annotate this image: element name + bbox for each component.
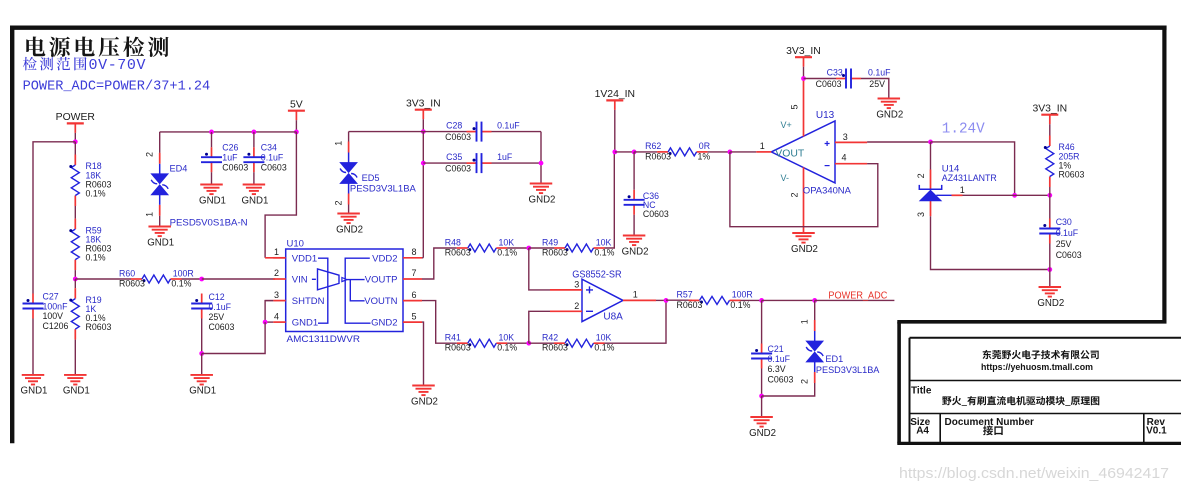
wire <box>74 133 76 142</box>
wire <box>730 151 756 153</box>
svg-text:GND2: GND2 <box>529 194 556 205</box>
wire <box>741 299 762 301</box>
junction <box>632 150 637 155</box>
svg-text:GND2: GND2 <box>371 318 397 329</box>
ground GND1 <box>21 375 48 397</box>
resistor R19 <box>69 288 111 340</box>
svg-text:VDD1: VDD1 <box>292 254 317 265</box>
wire VOUTN to R41 <box>422 301 457 344</box>
wire C36 drop <box>633 152 635 190</box>
svg-text:6.3V: 6.3V <box>768 364 786 374</box>
junction <box>664 298 669 303</box>
svg-text:ED4: ED4 <box>170 164 188 174</box>
resistor R49 <box>542 237 615 257</box>
wire <box>1049 195 1051 218</box>
capacitor C35 <box>445 152 513 173</box>
svg-text:0.1%: 0.1% <box>594 343 614 353</box>
wire <box>348 205 350 214</box>
wire 3V3 vertical to VDD2 <box>422 132 423 258</box>
svg-text:GND1: GND1 <box>63 386 90 397</box>
title block document CJK <box>983 425 1003 435</box>
svg-text:C0603: C0603 <box>209 322 235 332</box>
svg-text:R0603: R0603 <box>645 151 671 161</box>
svg-text:R60: R60 <box>119 268 135 278</box>
svg-text:R0603: R0603 <box>86 322 112 332</box>
svg-text:PESD3V3L1BA: PESD3V3L1BA <box>350 184 417 194</box>
heading subtitle CJK <box>23 57 87 71</box>
svg-text:R0603: R0603 <box>445 343 471 353</box>
wire <box>32 319 34 375</box>
svg-text:1: 1 <box>960 185 965 195</box>
wire <box>529 247 554 249</box>
ground GND2 <box>622 236 649 258</box>
svg-text:4: 4 <box>274 311 279 321</box>
wire <box>633 215 635 236</box>
svg-text:U10: U10 <box>287 238 304 249</box>
TVS diode ED5 <box>334 141 417 206</box>
wire <box>615 151 634 153</box>
wire VOUTP to R48 <box>422 248 457 279</box>
wire <box>1049 187 1051 195</box>
svg-text:C26: C26 <box>222 143 238 153</box>
svg-text:VOUTP: VOUTP <box>365 275 398 286</box>
shunt reference U14 AZ431LANTR <box>916 163 997 217</box>
resistor R60 <box>119 268 194 288</box>
wire U14 ref to node <box>963 194 1050 196</box>
svg-text:25V: 25V <box>1056 239 1072 249</box>
wire R48 junction to +input <box>529 248 550 290</box>
op-amp U10 AMC1311DWVR isolation amplifier <box>273 238 422 344</box>
wire <box>507 342 529 344</box>
ground GND1 <box>63 375 90 397</box>
junction <box>526 341 531 346</box>
wire <box>1049 244 1051 270</box>
wire <box>253 132 255 147</box>
svg-text:C21: C21 <box>768 344 784 354</box>
junction <box>73 277 78 282</box>
wire <box>202 278 275 280</box>
junction <box>1047 267 1052 272</box>
junction <box>1012 193 1017 198</box>
heading title CJK <box>26 36 168 57</box>
svg-text:VDD2: VDD2 <box>372 254 397 265</box>
wire GND1 net down to C12 <box>202 322 265 353</box>
svg-text:1: 1 <box>760 141 765 151</box>
svg-text:C34: C34 <box>261 143 277 153</box>
svg-text:100R: 100R <box>732 290 753 300</box>
svg-text:OPA340NA: OPA340NA <box>803 186 852 197</box>
power port 3V3_IN <box>786 46 821 67</box>
svg-text:C0603: C0603 <box>1056 250 1082 260</box>
wire C28 to corner <box>492 131 542 133</box>
svg-text:POWER: POWER <box>56 112 96 123</box>
resistor R42 <box>542 333 615 353</box>
svg-text:VOUT: VOUT <box>775 149 804 160</box>
junction <box>199 277 204 282</box>
resistor R62 <box>645 141 710 161</box>
wire C35 row <box>423 162 466 164</box>
svg-text:R0603: R0603 <box>542 343 568 353</box>
svg-text:Title: Title <box>911 385 932 396</box>
svg-text:R49: R49 <box>542 237 558 247</box>
svg-text:10K: 10K <box>499 237 515 247</box>
svg-text:0.1%: 0.1% <box>171 278 191 288</box>
wire +input to 1.24V node <box>867 141 930 143</box>
svg-text:GND2: GND2 <box>622 246 649 257</box>
svg-text:0.1%: 0.1% <box>594 247 614 257</box>
wire C28 row <box>423 131 466 133</box>
junction <box>263 320 268 325</box>
resistor R48 <box>445 237 518 257</box>
svg-text:GND2: GND2 <box>749 428 776 439</box>
svg-text:GND1: GND1 <box>199 195 226 206</box>
svg-text:5V: 5V <box>290 99 303 110</box>
svg-text:https://blog.csdn.net/weixin_4: https://blog.csdn.net/weixin_46942417 <box>899 466 1169 482</box>
svg-text:2: 2 <box>916 173 926 178</box>
TVS diode ED4 <box>145 152 248 228</box>
wire <box>74 340 76 375</box>
wire <box>614 110 616 152</box>
wire <box>74 206 76 219</box>
svg-text:C1206: C1206 <box>43 321 69 331</box>
svg-text:R41: R41 <box>445 333 461 343</box>
wire <box>253 172 255 184</box>
wire C30 gnd drop <box>1049 270 1051 288</box>
wire <box>761 369 763 397</box>
resistor R41 <box>445 333 518 353</box>
ground GND2 <box>529 184 556 206</box>
resistor R59 <box>69 219 111 271</box>
ground GND1 <box>241 185 268 207</box>
ground GND1 <box>199 185 226 207</box>
junction <box>421 161 426 166</box>
svg-text:VIN: VIN <box>292 275 308 286</box>
capacitor C26 <box>201 143 248 173</box>
capacitor C12 <box>191 292 234 332</box>
svg-text:10K: 10K <box>596 333 612 343</box>
ground GND1 <box>189 375 216 397</box>
wire POWER_ADC stub <box>815 299 895 301</box>
svg-text:C0603: C0603 <box>222 163 248 173</box>
svg-text:0.1%: 0.1% <box>497 343 517 353</box>
svg-text:1uF: 1uF <box>497 152 513 162</box>
wire caps gnd vertical <box>540 132 542 184</box>
svg-text:4: 4 <box>842 153 847 163</box>
svg-text:2: 2 <box>789 192 799 197</box>
svg-text:0.1uF: 0.1uF <box>768 354 791 364</box>
ground GND2 <box>411 386 438 408</box>
svg-text:3: 3 <box>274 290 279 300</box>
wire 5V to U10 VDD1 <box>265 132 296 258</box>
svg-text:GND1: GND1 <box>292 318 318 329</box>
wire <box>211 172 213 184</box>
wire <box>803 67 805 79</box>
svg-text:GND2: GND2 <box>791 244 818 255</box>
svg-text:GND2: GND2 <box>411 396 438 407</box>
svg-text:1: 1 <box>633 289 638 299</box>
capacitor C34 <box>243 143 286 173</box>
svg-text:R42: R42 <box>542 333 558 343</box>
svg-text:V-: V- <box>781 173 790 183</box>
junction <box>252 130 257 135</box>
wire U13 feedback <box>730 152 878 227</box>
wire <box>656 299 666 301</box>
svg-text:1%: 1% <box>698 151 711 161</box>
wire <box>666 299 692 301</box>
svg-text:PESD3V3L1BA: PESD3V3L1BA <box>816 365 880 375</box>
junction <box>759 394 764 399</box>
junction <box>209 130 214 135</box>
wire <box>634 151 657 153</box>
power port 3V3_IN <box>406 98 441 119</box>
svg-text:GS8552-SR: GS8552-SR <box>572 270 622 281</box>
capacitor C21 <box>751 344 793 385</box>
svg-text:0.1uF: 0.1uF <box>1056 228 1079 238</box>
svg-text:1: 1 <box>334 141 344 146</box>
wire <box>201 354 203 375</box>
svg-text:0.1uF: 0.1uF <box>209 302 232 312</box>
wire ED5 drop <box>348 132 350 142</box>
wire <box>529 342 554 344</box>
svg-text:1: 1 <box>145 212 155 217</box>
svg-text:2: 2 <box>274 268 279 278</box>
svg-text:R0603: R0603 <box>542 247 568 257</box>
svg-text:GND2: GND2 <box>1037 298 1064 309</box>
wire <box>295 120 297 132</box>
junction <box>421 129 426 134</box>
junction <box>1047 193 1052 198</box>
wire ED4 drop <box>159 132 161 153</box>
svg-text:0.1%: 0.1% <box>86 253 106 263</box>
junction <box>73 139 78 144</box>
svg-text:C30: C30 <box>1056 217 1072 227</box>
wire <box>74 279 76 288</box>
svg-text:5: 5 <box>789 104 799 109</box>
svg-text:A4: A4 <box>916 426 929 437</box>
svg-text:1V24_IN: 1V24_IN <box>595 89 635 100</box>
svg-text:R0603: R0603 <box>445 247 471 257</box>
ground GND2 <box>876 99 903 121</box>
svg-text:100V: 100V <box>43 311 64 321</box>
ground GND2 <box>336 214 363 236</box>
wire <box>159 216 161 227</box>
svg-text:GND1: GND1 <box>189 386 216 397</box>
svg-text:U8A: U8A <box>603 311 623 322</box>
svg-text:R48: R48 <box>445 237 461 247</box>
wire R49 up to 1V24_IN <box>605 152 615 248</box>
svg-text:ED1: ED1 <box>825 354 843 364</box>
svg-text:V0.1: V0.1 <box>1146 426 1167 437</box>
wire SHTDN to GND1 net <box>265 301 273 323</box>
wire 5V bus <box>160 131 297 133</box>
svg-text:R57: R57 <box>677 290 693 300</box>
wire U14 cathode drop <box>930 142 932 170</box>
wire <box>75 278 131 280</box>
junction <box>612 150 617 155</box>
power port 1V24_IN <box>595 89 635 110</box>
wire R42 to output node <box>605 300 667 343</box>
title block schematic title CJK <box>942 396 1099 406</box>
wire GND2 pin5 down <box>422 322 424 385</box>
capacitor C28 <box>445 121 520 142</box>
title block company CJK <box>983 350 1099 359</box>
svg-text:0.1%: 0.1% <box>86 189 106 199</box>
svg-text:C0603: C0603 <box>816 79 842 89</box>
wire 1.24V rail right <box>931 142 1015 195</box>
svg-text:10K: 10K <box>596 237 612 247</box>
wire C33 row <box>804 78 837 80</box>
ground GND2 <box>791 233 818 255</box>
junction <box>294 130 299 135</box>
svg-text:R0603: R0603 <box>1059 170 1085 180</box>
svg-text:3: 3 <box>574 280 579 290</box>
svg-text:R0603: R0603 <box>119 278 145 288</box>
resistor R46 <box>1044 136 1085 188</box>
svg-text:6: 6 <box>412 290 417 300</box>
svg-text:GND1: GND1 <box>21 386 48 397</box>
svg-text:GND1: GND1 <box>147 237 174 248</box>
capacitor C36 <box>624 190 669 219</box>
wire to GND2 <box>761 396 763 417</box>
svg-text:C0603: C0603 <box>445 163 471 173</box>
resistor R57 <box>677 290 753 310</box>
ground GND1 <box>147 227 174 249</box>
svg-text:R62: R62 <box>645 141 661 151</box>
svg-text:1.24V: 1.24V <box>942 121 985 137</box>
svg-text:U13: U13 <box>816 110 835 121</box>
svg-text:2: 2 <box>574 301 579 311</box>
junction <box>928 140 933 145</box>
wire <box>265 300 273 302</box>
wire R41 junction to -input <box>529 311 550 343</box>
wire to ED5 <box>349 131 424 133</box>
svg-text:3: 3 <box>916 212 926 217</box>
svg-text:100R: 100R <box>173 268 194 278</box>
svg-text:5: 5 <box>412 311 417 321</box>
wire <box>201 319 203 354</box>
op-amp U13 OPA340NA <box>756 79 867 234</box>
svg-text:V+: V+ <box>781 120 792 130</box>
svg-text:C35: C35 <box>446 152 462 162</box>
svg-text:2: 2 <box>145 152 155 157</box>
svg-text:GND1: GND1 <box>241 195 268 206</box>
wire <box>74 142 76 155</box>
svg-text:C28: C28 <box>446 121 462 131</box>
svg-text:0.1uF: 0.1uF <box>261 153 284 163</box>
wire ED1 drop <box>814 300 816 320</box>
svg-text:0V-70V: 0V-70V <box>89 57 147 74</box>
svg-text:3V3_IN: 3V3_IN <box>1032 103 1067 114</box>
svg-text:0.1%: 0.1% <box>497 247 517 257</box>
svg-text:3V3_IN: 3V3_IN <box>786 46 821 57</box>
wire <box>762 299 815 301</box>
svg-text:C0603: C0603 <box>643 209 669 219</box>
junction <box>526 246 531 251</box>
svg-text:0.1%: 0.1% <box>730 300 750 310</box>
wire <box>1049 124 1051 135</box>
svg-text:ED5: ED5 <box>362 173 380 183</box>
power port POWER <box>56 112 96 133</box>
wire C21 drop <box>761 300 763 343</box>
svg-text:0.1uF: 0.1uF <box>868 68 891 78</box>
wire <box>182 278 202 280</box>
op-amp U8A GS8552-SR <box>550 270 656 323</box>
capacitor C27 <box>23 292 69 331</box>
wire C33 to gnd <box>861 79 889 99</box>
resistor R18 <box>69 155 111 207</box>
wire U14 anode down <box>931 216 1050 269</box>
TVS diode ED1 <box>800 319 881 384</box>
svg-text:R0603: R0603 <box>677 300 703 310</box>
svg-text:C33: C33 <box>827 68 843 78</box>
svg-text:2: 2 <box>334 200 344 205</box>
svg-text:C0603: C0603 <box>445 132 471 142</box>
junction <box>539 161 544 166</box>
junction <box>801 76 806 81</box>
wire <box>211 132 213 147</box>
capacitor C33 <box>816 68 892 89</box>
svg-text:SHTDN: SHTDN <box>292 296 325 307</box>
capacitor C30 <box>1039 217 1081 260</box>
svg-text:0.1uF: 0.1uF <box>497 121 520 131</box>
svg-text:POWER_ADC: POWER_ADC <box>828 291 887 302</box>
svg-text:8: 8 <box>412 247 417 257</box>
svg-text:100nF: 100nF <box>43 301 69 311</box>
svg-text:VOUTN: VOUTN <box>364 296 397 307</box>
power port 3V3_IN <box>1032 103 1067 124</box>
wire <box>422 119 424 131</box>
svg-text:1: 1 <box>800 319 810 324</box>
svg-text:AMC1311DWVR: AMC1311DWVR <box>287 334 361 345</box>
svg-text:25V: 25V <box>869 79 885 89</box>
svg-text:3V3_IN: 3V3_IN <box>406 98 441 109</box>
wire <box>265 321 273 323</box>
junction <box>199 351 204 356</box>
svg-text:C27: C27 <box>43 292 59 302</box>
wire C35 to corner <box>492 162 542 164</box>
svg-text:C12: C12 <box>209 292 225 302</box>
svg-text:AZ431LANTR: AZ431LANTR <box>942 173 997 183</box>
svg-text:1: 1 <box>274 247 279 257</box>
ground GND2 <box>1037 287 1064 309</box>
title block frame <box>897 322 1181 444</box>
wire <box>74 270 76 279</box>
wire ED1 bottom <box>762 383 815 396</box>
junction <box>759 298 764 303</box>
svg-text:25V: 25V <box>209 312 225 322</box>
svg-text:1uF: 1uF <box>222 153 238 163</box>
svg-text:C0603: C0603 <box>261 163 287 173</box>
svg-text:PESD5V0S1BA-N: PESD5V0S1BA-N <box>170 218 248 228</box>
svg-text:GND2: GND2 <box>336 224 363 235</box>
svg-text:0R: 0R <box>699 141 710 151</box>
wire <box>507 247 529 249</box>
node POWER net wire to C27 <box>33 142 75 294</box>
svg-text:C0603: C0603 <box>768 374 794 384</box>
power port 5V <box>288 99 305 120</box>
junction <box>728 150 733 155</box>
ground GND2 <box>749 417 776 439</box>
svg-text:POWER_ADC=POWER/37+1.24: POWER_ADC=POWER/37+1.24 <box>23 80 211 95</box>
wire <box>708 151 730 153</box>
svg-text:10K: 10K <box>499 333 515 343</box>
svg-text:GND2: GND2 <box>876 109 903 120</box>
svg-text:3: 3 <box>843 132 848 142</box>
svg-text:https://yehuosm.tmall.com: https://yehuosm.tmall.com <box>981 362 1093 372</box>
svg-text:7: 7 <box>412 268 417 278</box>
junction <box>812 298 817 303</box>
svg-text:2: 2 <box>800 379 810 384</box>
